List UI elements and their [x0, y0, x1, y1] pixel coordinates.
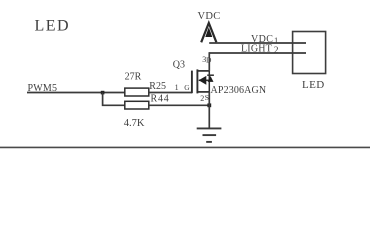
svg-text:LED: LED [35, 18, 71, 35]
substrate stub [199, 79, 210, 81]
svg-text:AP2306AGN: AP2306AGN [211, 85, 267, 96]
svg-text:4.7K: 4.7K [124, 118, 145, 129]
svg-text:VDC: VDC [198, 11, 221, 22]
drain stub [197, 70, 209, 72]
junction dot at PWM branch [101, 91, 105, 95]
body diode triangle [208, 76, 214, 82]
svg-text:Q3: Q3 [173, 59, 185, 70]
connector J LED box [293, 32, 326, 74]
svg-text:R44: R44 [151, 93, 170, 104]
source wire down to ground [208, 92, 210, 128]
substrate arrow (N-channel) [199, 76, 207, 85]
wire LIGHT net [209, 52, 306, 54]
sheet border bottom [0, 146, 370, 148]
power arrow VDC [201, 23, 216, 42]
svg-text:LIGHT: LIGHT [241, 44, 272, 55]
svg-text:27R: 27R [125, 71, 142, 82]
resistor R25 body [125, 88, 149, 96]
svg-text:G: G [184, 83, 190, 92]
svg-text:S: S [205, 93, 209, 102]
drain-source body line [208, 71, 210, 92]
svg-text:1: 1 [175, 83, 179, 92]
ground symbol [197, 128, 222, 142]
wire R25 to gate [149, 92, 192, 94]
junction dot at source/R44 [207, 103, 211, 107]
mosfet Q3 gate bar [191, 71, 193, 94]
svg-text:1: 1 [274, 35, 278, 45]
svg-text:LED: LED [302, 79, 325, 91]
svg-text:2: 2 [274, 46, 279, 56]
wire PWM5 [27, 92, 125, 94]
body diode cathode bar [207, 74, 214, 76]
wire VDC net [209, 42, 306, 44]
resistor R44 body [125, 101, 149, 109]
mosfet Q3 channel bar [196, 69, 198, 93]
svg-text:R25: R25 [149, 81, 166, 92]
source stub [197, 91, 209, 93]
drain wire up to LIGHT [208, 52, 210, 71]
svg-text:2: 2 [200, 94, 204, 103]
sheet background [0, 0, 370, 157]
wire branch down to R44 [103, 93, 125, 106]
wire R44 to source node [149, 104, 210, 106]
